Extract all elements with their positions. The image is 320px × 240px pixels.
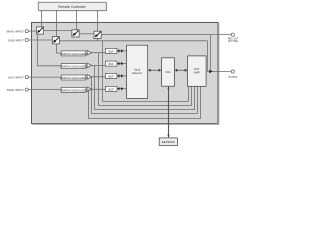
control drop line 3	[76, 10, 78, 30]
gate VOL-driver	[175, 69, 188, 72]
row2 tap down to bus L3	[95, 65, 195, 109]
row2 buffer	[87, 63, 92, 68]
svg-text:BUF: BUF	[109, 49, 115, 53]
row1 LPF box	[105, 48, 117, 53]
svg-text:BUF: BUF	[109, 62, 115, 66]
svg-text:SUB INPUT: SUB INPUT	[8, 38, 24, 42]
row 1: equalizer box	[60, 51, 87, 56]
switch SW3	[72, 30, 79, 37]
svg-text:TAPE INPUT: TAPE INPUT	[7, 88, 25, 92]
control drop line 1	[41, 10, 43, 27]
input selector box	[127, 45, 148, 98]
wire to output 2	[208, 71, 231, 73]
svg-text:GRAPHIC EQUALIZER: GRAPHIC EQUALIZER	[60, 88, 87, 92]
gate selector-VOL	[148, 69, 161, 72]
row1 buffer	[87, 50, 92, 55]
riser from line y41 down to bus L1	[102, 41, 104, 102]
svg-text:MAIN INPUT: MAIN INPUT	[7, 29, 25, 33]
row1 wire to selector	[123, 50, 126, 52]
output terminal 1	[231, 33, 234, 36]
volume box	[162, 58, 175, 86]
svg-text:Remote Controller: Remote Controller	[58, 5, 86, 9]
stub SW4 bottom to line	[97, 38, 99, 40]
svg-text:GRAPHIC EQUALIZER: GRAPHIC EQUALIZER	[60, 76, 87, 80]
row 4: equalizer box	[60, 87, 87, 92]
svg-text:AUX INPUT: AUX INPUT	[8, 75, 24, 79]
eeprom box	[159, 138, 177, 146]
row4 buffer	[87, 87, 92, 92]
svg-text:BUF: BUF	[109, 74, 115, 78]
wire input4 to row4	[28, 89, 61, 91]
svg-text:GRAPHIC EQUALIZER: GRAPHIC EQUALIZER	[60, 52, 87, 56]
wire SW2 bottom down to row1	[57, 44, 62, 53]
row4 wire to LPF	[86, 88, 106, 90]
svg-text:VOL: VOL	[165, 70, 171, 74]
block shadow bottom	[33, 23, 219, 124]
svg-text:BUF: BUF	[109, 87, 115, 91]
svg-text:GRAPHIC EQUALIZER: GRAPHIC EQUALIZER	[60, 65, 87, 69]
svg-text:AMP: AMP	[194, 70, 200, 74]
row3 gate arrow	[117, 74, 123, 77]
wire SW1 to SW3	[44, 30, 72, 32]
row4 LPF box	[105, 86, 117, 91]
row3 wire to selector	[123, 75, 126, 77]
remote controller box	[38, 2, 106, 10]
svg-text:OUTPUT: OUTPUT	[228, 77, 238, 79]
row3 buffer	[87, 75, 92, 80]
wire input3 to row3	[28, 76, 61, 78]
row 3: equalizer box	[60, 75, 87, 80]
rec out line from SW4 to right edge	[101, 34, 231, 36]
svg-text:REC OUT: REC OUT	[228, 38, 239, 40]
row 2: equalizer box	[60, 64, 87, 69]
out2 arrowhead	[209, 70, 213, 73]
row2 wire to LPF	[86, 64, 106, 66]
wire SW3 to SW4	[79, 33, 94, 35]
switch SW4	[94, 31, 101, 38]
row3 wire to LPF	[86, 76, 106, 78]
row1 wire to LPF	[86, 52, 106, 54]
output driver box	[188, 56, 207, 86]
svg-text:Selector: Selector	[132, 71, 142, 75]
main IC block	[32, 22, 219, 123]
row2 gate arrow	[117, 62, 123, 65]
branch y41-line down to out2 wire	[207, 41, 209, 72]
row1 gate arrow	[117, 49, 123, 52]
bus L1 from riser to right box	[103, 86, 189, 101]
row3 tap down to bus L4	[92, 77, 198, 114]
row4 tap down to bus L5	[89, 86, 201, 118]
output terminal 2	[231, 70, 234, 73]
line SW2 output to right	[60, 40, 208, 42]
svg-text:EEPROM: EEPROM	[162, 140, 176, 144]
svg-text:(B-TYPE): (B-TYPE)	[228, 41, 238, 43]
row2 LPF box	[105, 61, 117, 66]
control drop line 4	[97, 10, 99, 31]
row2 wire to selector	[123, 63, 126, 65]
wire SW1 bottom down to row2	[38, 34, 62, 66]
row4 wire to selector	[123, 88, 126, 90]
row1 tap down to bus L2	[99, 53, 192, 106]
row4 gate arrow	[117, 87, 123, 90]
wire input2 to SW2	[28, 39, 52, 41]
switch SW2	[52, 37, 59, 44]
arrowhead up at VOL	[168, 86, 170, 89]
eeprom link line	[168, 86, 170, 137]
branch from rec line down to out2	[210, 35, 212, 72]
arrowhead down at eeprom	[167, 135, 169, 138]
wire input1 to SW1	[28, 30, 36, 32]
page background	[0, 0, 240, 148]
control drop line 2	[56, 10, 58, 37]
row3 LPF box	[105, 73, 117, 78]
switch SW1	[36, 27, 43, 34]
